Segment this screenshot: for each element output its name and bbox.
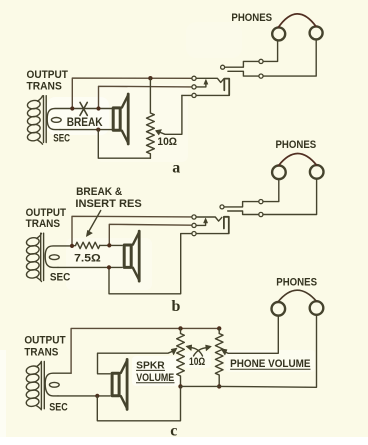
- wire: terminal 3 to right earpiece (b): [263, 178, 317, 214]
- wire: secondary bottom lead to speaker (b): [58, 266, 122, 268]
- scan tint patches: [47, 22, 315, 386]
- headphone right earpiece (c): [310, 301, 324, 315]
- transformer T(b) primary winding: [26, 233, 42, 281]
- svg-text:BREAK &: BREAK &: [76, 186, 122, 198]
- svg-text:INSERT RES: INSERT RES: [75, 198, 142, 210]
- transformer T(c) secondary winding SEC: [45, 373, 71, 396]
- pointer arrow from BREAK & INSERT RES note (b): [86, 211, 100, 237]
- crossed wiper arrow to left pot (c): [186, 345, 203, 356]
- junction dot (a) bottom lead: [96, 128, 100, 132]
- wire: speaker top to spkr-volume wiper (c): [98, 351, 174, 374]
- transformer T(c) primary winding: [26, 362, 42, 410]
- jack J(a) middle contact circle: [192, 85, 196, 89]
- wire: top rail from break left side to jack tip contact (a): [72, 78, 192, 108]
- jack J(b) middle contact arm with arrow: [196, 218, 207, 225]
- wire: plug blade lower (a): [228, 71, 259, 76]
- wire: bottom branch to jack sleeve (b): [109, 234, 192, 294]
- svg-text:7.5Ω: 7.5Ω: [74, 253, 101, 265]
- headphone left earpiece (b): [272, 166, 286, 180]
- phone cord terminal circle 3 (b): [259, 212, 263, 216]
- svg-text:TRANS: TRANS: [27, 81, 63, 93]
- svg-text:TRANS: TRANS: [24, 347, 58, 359]
- jack J(a) tip contact circle: [192, 76, 196, 80]
- potentiometer wiper arrow (a): [156, 95, 182, 134]
- junction dot (c) top rail / right pot: [217, 326, 221, 330]
- transformer T(b) secondary winding SEC: [45, 246, 72, 268]
- svg-text:TRANS: TRANS: [26, 218, 61, 230]
- svg-text:10Ω: 10Ω: [157, 136, 177, 148]
- svg-text:c: c: [170, 423, 177, 440]
- svg-text:SEC: SEC: [50, 272, 71, 284]
- headphone left earpiece (c): [272, 302, 286, 316]
- wire: secondary bottom lead to speaker (c): [58, 395, 110, 397]
- headphone right earpiece (b): [310, 165, 324, 179]
- phone cord terminal circle 2 (b): [259, 200, 263, 204]
- jack J(b) middle contact circle: [192, 223, 196, 227]
- break X mark (a): [80, 102, 87, 115]
- wire: jack sleeve to plug body (a): [196, 94, 229, 96]
- wire: pot bottom to secondary bottom branch (a): [98, 130, 150, 159]
- resistor 7.5 ohm (b): [76, 242, 100, 248]
- phone volume wiper arrowhead (c): [221, 349, 227, 355]
- phone cord terminal circle 3 (a): [259, 74, 263, 78]
- junction dot (b) resistor left: [70, 244, 74, 248]
- junction dot (c) bottom lead: [95, 394, 99, 398]
- wire: left pot bottom to bottom lead (c): [97, 386, 180, 420]
- plug body (a): [224, 79, 229, 95]
- svg-text:OUTPUT: OUTPUT: [24, 335, 65, 347]
- wire: secondary top lead to speaker (a): [72, 108, 112, 110]
- wire: terminal 1 step to terminal 2 (a): [225, 61, 259, 67]
- phone cord terminal circle 1 (b): [220, 205, 224, 209]
- transformer T(a) secondary winding SEC: [47, 109, 72, 130]
- svg-text:PHONES: PHONES: [231, 12, 272, 24]
- jack J(b) tip contact circle: [192, 215, 196, 219]
- speaker SPKR (a): [113, 94, 128, 144]
- junction dot (c) right pot bottom: [217, 384, 221, 388]
- junction dot (a) break left: [70, 106, 74, 110]
- wire: jack sleeve to plug body (b): [196, 233, 229, 235]
- wire: second rail from resistor right to jack middle contact (b): [109, 224, 192, 245]
- junction dot (a) top rail / pot top: [148, 76, 152, 80]
- transformer T(a) core: [44, 96, 47, 143]
- jack J(a) tip spring with V notch: [196, 78, 224, 82]
- headphone headband arc (a): [278, 14, 316, 28]
- jack J(b) sleeve contact circle: [192, 232, 196, 236]
- potentiometer PHONE VOLUME 10 ohm (c): [215, 328, 223, 386]
- speaker SPKR (c): [112, 359, 127, 409]
- junction dot (b) bottom lead: [107, 265, 111, 269]
- speaker SPKR (b): [124, 231, 139, 281]
- wire: terminal 2 to left earpiece (a): [263, 40, 278, 61]
- jack J(a) middle contact arm with arrow: [196, 79, 208, 87]
- jack J(b) tip spring with V notch: [196, 217, 222, 221]
- headphone headband arc (c): [278, 290, 317, 302]
- spkr volume wiper arrowhead (c): [171, 348, 177, 355]
- transformer T(b) core: [41, 233, 44, 280]
- headphone left earpiece (a): [272, 27, 285, 40]
- phone cord terminal circle 1 (a): [221, 65, 225, 69]
- wire: terminal 1 step to terminal 2 (b): [224, 202, 259, 207]
- wire: terminal 2 to left earpiece (b): [263, 179, 279, 202]
- svg-text:PHONE VOLUME: PHONE VOLUME: [230, 358, 311, 370]
- transformer T(a) primary winding: [27, 96, 43, 144]
- svg-text:a: a: [172, 159, 180, 176]
- wire: jack sleeve line to wiper riser (a): [182, 94, 192, 96]
- wire: secondary top lead to resistor (b): [72, 245, 76, 247]
- headphone right earpiece (a): [310, 26, 323, 39]
- wire: terminal 3 to right earpiece (a): [263, 39, 316, 76]
- junction dot (b) resistor right: [107, 243, 111, 247]
- crossed wiper arrow to right pot (c): [194, 345, 212, 356]
- wire: secondary bottom lead to speaker (a): [60, 129, 112, 131]
- svg-text:VOLUME: VOLUME: [136, 372, 174, 384]
- phone cord terminal circle 2 (a): [259, 59, 263, 63]
- svg-text:PHONES: PHONES: [276, 139, 317, 151]
- wire: phone volume wiper from left earpiece (c): [225, 316, 278, 353]
- svg-text:SPKR: SPKR: [136, 361, 165, 372]
- svg-text:SEC: SEC: [53, 133, 70, 145]
- junction dot (c) left pot bottom: [178, 384, 182, 388]
- wire: second rail from break right side to jack middle contact (a): [99, 86, 192, 108]
- junction dot (c) top rail / left pot: [178, 326, 182, 330]
- wire: top rail from resistor left to jack tip contact (b): [72, 216, 192, 246]
- wire: resistor right to speaker (b): [100, 244, 122, 246]
- headphone headband arc (b): [279, 153, 317, 165]
- wire: plug blade lower (b): [228, 211, 259, 215]
- wire: pot bottoms link and to right earpiece (c): [181, 315, 317, 387]
- svg-text:10Ω: 10Ω: [189, 356, 205, 368]
- potentiometer SPKR VOLUME 10 ohm (c): [177, 328, 185, 386]
- svg-text:OUTPUT: OUTPUT: [27, 69, 68, 81]
- potentiometer R 10ohm (a) body: [147, 78, 155, 158]
- wire: top rail from secondary to pots (c): [71, 328, 219, 373]
- junction dot (a) break right: [96, 106, 100, 110]
- svg-text:b: b: [172, 298, 181, 315]
- jack J(a) sleeve contact circle: [192, 93, 196, 97]
- plug body (b): [224, 217, 229, 233]
- svg-text:BREAK: BREAK: [67, 115, 103, 129]
- svg-text:SEC: SEC: [49, 401, 68, 413]
- svg-text:PHONES: PHONES: [276, 277, 317, 289]
- transformer T(c) core: [41, 362, 44, 409]
